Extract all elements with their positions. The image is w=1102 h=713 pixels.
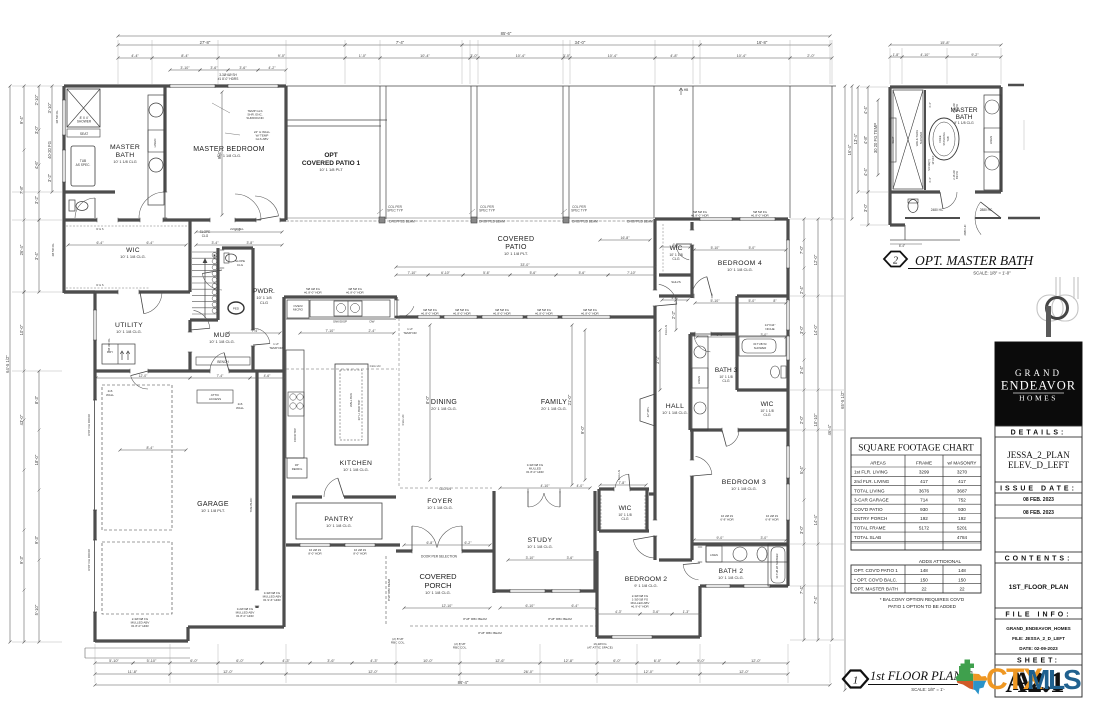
svg-text:SHOWER: SHOWER bbox=[754, 346, 767, 350]
svg-text:150: 150 bbox=[958, 577, 966, 582]
svg-text:9'-0": 9'-0" bbox=[278, 54, 286, 58]
svg-text:10' 1 1/8 CLG.: 10' 1 1/8 CLG. bbox=[427, 505, 453, 510]
svg-text:JESSA_2_PLAN: JESSA_2_PLAN bbox=[1007, 450, 1070, 460]
svg-text:* OPT. COV'D BALC.: * OPT. COV'D BALC. bbox=[854, 577, 897, 582]
svg-text:8'-3": 8'-3" bbox=[34, 395, 39, 404]
svg-text:OPT. MASTER BATH: OPT. MASTER BATH bbox=[915, 253, 1034, 268]
window master-top bbox=[170, 84, 215, 88]
svg-text:3'-0": 3'-0" bbox=[761, 536, 769, 540]
svg-text:3'-4": 3'-4" bbox=[212, 241, 220, 245]
svg-text:417: 417 bbox=[958, 479, 966, 484]
svg-text:7'-10": 7'-10" bbox=[627, 271, 636, 275]
svg-text:6'-10": 6'-10" bbox=[441, 271, 450, 275]
svg-text:PATIO: PATIO bbox=[505, 244, 527, 251]
window bed2-bottom bbox=[612, 635, 652, 639]
svg-text:3'-2": 3'-2" bbox=[34, 195, 39, 204]
svg-text:6'-0": 6'-0" bbox=[190, 659, 198, 663]
fixture fireplace bbox=[640, 394, 655, 426]
wall study-left bbox=[492, 491, 495, 593]
svg-text:PWDR.: PWDR. bbox=[253, 288, 275, 295]
svg-text:9'-0": 9'-0" bbox=[697, 659, 705, 663]
wire dim-wic4 bbox=[661, 246, 690, 248]
svg-text:14'-4": 14'-4" bbox=[813, 514, 818, 525]
svg-text:10'-4": 10'-4" bbox=[737, 54, 747, 58]
svg-text:#1 8'-0" HDR: #1 8'-0" HDR bbox=[535, 312, 553, 316]
svg-text:#1 8'-0" HDR: #1 8'-0" HDR bbox=[751, 214, 769, 218]
svg-text:43'-0": 43'-0" bbox=[19, 414, 24, 425]
fixture mud-bench bbox=[196, 357, 250, 365]
svg-text:2880 HC: 2880 HC bbox=[963, 224, 967, 235]
svg-text:9'-2": 9'-2" bbox=[971, 53, 979, 57]
svg-text:3676: 3676 bbox=[919, 488, 930, 493]
door utility-garage bbox=[131, 376, 148, 389]
wall kitchen-north bbox=[284, 295, 397, 298]
svg-text:PED: PED bbox=[233, 307, 240, 311]
svg-text:SQUARE FOOTAGE CHART: SQUARE FOOTAGE CHART bbox=[858, 444, 974, 454]
svg-text:27'-8": 27'-8" bbox=[200, 40, 211, 45]
wall exterior-master-top bbox=[64, 84, 286, 87]
svg-text:#1 9'-6" HDR: #1 9'-6" HDR bbox=[631, 605, 649, 609]
svg-text:7'-8": 7'-8" bbox=[19, 185, 24, 194]
door masterbath-entry bbox=[139, 192, 165, 218]
svg-text:752: 752 bbox=[958, 498, 966, 503]
fixture oven-micro bbox=[287, 300, 309, 318]
svg-text:148: 148 bbox=[920, 568, 928, 573]
svg-text:CLG: CLG bbox=[621, 517, 628, 521]
wire dropped-beam bbox=[286, 220, 655, 222]
door optbath-2 bbox=[975, 202, 981, 235]
svg-text:8"x8" RBC BEAM: 8"x8" RBC BEAM bbox=[478, 631, 502, 635]
svg-text:12'-8": 12'-8" bbox=[564, 659, 574, 663]
wire dim-top bbox=[118, 35, 830, 37]
fixture master-toilet bbox=[76, 202, 88, 211]
node titleblock-contents bbox=[995, 552, 1082, 563]
svg-text:DROPPED BEAM: DROPPED BEAM bbox=[389, 220, 415, 224]
svg-text:64'-5 1/2": 64'-5 1/2" bbox=[5, 355, 10, 373]
svg-text:OPT. COV'D PATIO 1: OPT. COV'D PATIO 1 bbox=[854, 568, 898, 573]
svg-text:5'-10": 5'-10" bbox=[34, 604, 39, 615]
door hall-family bbox=[659, 284, 677, 304]
svg-text:12'-0": 12'-0" bbox=[813, 254, 818, 265]
svg-text:2480 HC: 2480 HC bbox=[931, 208, 944, 212]
svg-text:12'-0": 12'-0" bbox=[644, 670, 654, 674]
wall pantry-top bbox=[292, 495, 396, 498]
svg-text:12'-6": 12'-6" bbox=[495, 659, 505, 663]
node optbath-title bbox=[884, 252, 907, 267]
svg-text:TEMP DR: TEMP DR bbox=[269, 346, 283, 350]
svg-text:4'-4": 4'-4" bbox=[235, 228, 243, 232]
svg-text:5'-10": 5'-10" bbox=[711, 246, 720, 250]
svg-text:3'-0": 3'-0" bbox=[799, 325, 804, 334]
svg-text:DOOR PER SELECTION: DOOR PER SELECTION bbox=[421, 555, 458, 559]
wall mud-east bbox=[251, 318, 254, 371]
svg-text:FILE INFO:: FILE INFO: bbox=[1005, 611, 1071, 618]
fixture bath3-vanity bbox=[692, 336, 708, 430]
fixture kitchen-counter-top bbox=[286, 318, 396, 320]
wire dim-bottom bbox=[95, 662, 133, 664]
wire dim-left bbox=[9, 86, 11, 642]
svg-text:26'-0": 26'-0" bbox=[524, 670, 534, 674]
svg-text:NICHE(T): NICHE(T) bbox=[927, 159, 931, 171]
svg-text:WIC: WIC bbox=[126, 247, 140, 254]
door pantry bbox=[322, 494, 344, 499]
window right-bed4 bbox=[786, 240, 790, 268]
svg-text:LINEN: LINEN bbox=[989, 136, 993, 144]
svg-text:FAMILY: FAMILY bbox=[541, 399, 567, 406]
window bath2-win bbox=[706, 584, 730, 588]
svg-text:4'-4": 4'-4" bbox=[863, 105, 868, 114]
wire dim-right-ticks bbox=[803, 218, 806, 221]
door bed4 bbox=[692, 277, 707, 296]
svg-text:3'-4": 3'-4" bbox=[928, 177, 932, 183]
svg-text:5172: 5172 bbox=[919, 526, 930, 531]
svg-text:DETAILS:: DETAILS: bbox=[1011, 429, 1067, 436]
svg-text:1'-3": 1'-3" bbox=[683, 610, 691, 614]
svg-text:7'-10": 7'-10" bbox=[408, 271, 417, 275]
svg-text:30 TUB W/ SHOWER: 30 TUB W/ SHOWER bbox=[775, 553, 779, 578]
svg-text:9'-0": 9'-0" bbox=[717, 333, 725, 337]
svg-text:TOTAL LIVING: TOTAL LIVING bbox=[854, 488, 885, 493]
svg-text:9'-0": 9'-0" bbox=[580, 425, 585, 434]
svg-text:LINEN: LINEN bbox=[710, 553, 718, 557]
svg-text:10'-4": 10'-4" bbox=[420, 54, 430, 58]
svg-text:SEAT: SEAT bbox=[80, 132, 88, 136]
svg-text:BENCH: BENCH bbox=[217, 360, 229, 364]
svg-text:9' 1 1/8 CLG.: 9' 1 1/8 CLG. bbox=[634, 583, 657, 588]
svg-text:COVERED: COVERED bbox=[498, 236, 535, 243]
svg-text:4'-4": 4'-4" bbox=[863, 167, 868, 176]
fixture garage-bays bbox=[102, 385, 172, 530]
svg-text:BATH: BATH bbox=[956, 114, 973, 121]
svg-text:4'-2": 4'-2" bbox=[268, 66, 276, 70]
svg-text:FOYER: FOYER bbox=[427, 498, 452, 505]
svg-text:SCALE: 1/8" = 1'-0": SCALE: 1/8" = 1'-0" bbox=[973, 271, 1011, 276]
svg-text:CLG: CLG bbox=[260, 300, 268, 305]
svg-text:#1 8'-0" HDR: #1 8'-0" HDR bbox=[453, 312, 471, 316]
svg-text:3'-10": 3'-10" bbox=[47, 102, 52, 113]
wall bed2-top-jog bbox=[649, 492, 655, 495]
window study-front bbox=[510, 589, 545, 593]
wall stairs-east bbox=[216, 248, 219, 320]
fixture shower-seat bbox=[67, 129, 100, 137]
svg-text:08 FEB. 2023: 08 FEB. 2023 bbox=[1023, 510, 1054, 516]
wire dim-patio bbox=[396, 266, 655, 268]
svg-text:BATH: BATH bbox=[116, 152, 135, 159]
svg-text:1: 1 bbox=[853, 675, 859, 687]
svg-text:3Ø 5Ø FG: 3Ø 5Ø FG bbox=[55, 111, 59, 124]
svg-text:10'-10": 10'-10" bbox=[813, 413, 818, 427]
fixture wic4-shelves bbox=[662, 224, 664, 273]
svg-text:COVERED PATIO 1: COVERED PATIO 1 bbox=[302, 160, 361, 167]
svg-text:5'-10": 5'-10" bbox=[109, 659, 119, 663]
svg-text:LINEN: LINEN bbox=[153, 139, 157, 148]
svg-text:1'-0": 1'-0" bbox=[359, 54, 367, 58]
fixture wic2-shelves bbox=[600, 495, 602, 529]
svg-text:150: 150 bbox=[920, 577, 928, 582]
svg-text:3'-4": 3'-4" bbox=[34, 251, 39, 260]
door garage-left-doors bbox=[92, 400, 97, 510]
svg-text:R & S: R & S bbox=[96, 283, 103, 287]
door wic-entry bbox=[255, 196, 279, 216]
svg-text:#1 8'-0" HDR: #1 8'-0" HDR bbox=[493, 312, 511, 316]
svg-text:10' 1 1/8 CLG.: 10' 1 1/8 CLG. bbox=[727, 267, 753, 272]
svg-text:6'-2": 6'-2" bbox=[465, 541, 473, 545]
svg-text:8'-4": 8'-4" bbox=[181, 54, 189, 58]
svg-text:#1 8'-0" HDR: #1 8'-0" HDR bbox=[346, 291, 364, 295]
svg-text:417: 417 bbox=[920, 479, 928, 484]
svg-text:6'-4": 6'-4" bbox=[899, 244, 905, 248]
node sqft-chart bbox=[851, 438, 981, 550]
svg-text:930: 930 bbox=[958, 507, 966, 512]
svg-text:TRE BUFF: TRE BUFF bbox=[249, 498, 253, 513]
svg-text:(AT ATTIC SPACE): (AT ATTIC SPACE) bbox=[587, 646, 612, 650]
svg-text:13'-4": 13'-4" bbox=[853, 133, 858, 144]
wall masterbath-east bbox=[163, 86, 166, 192]
svg-text:3'-6": 3'-6" bbox=[653, 610, 661, 614]
svg-text:PORCH: PORCH bbox=[424, 581, 451, 590]
wire dim-right bbox=[803, 219, 805, 640]
door kitchen-patio bbox=[397, 306, 414, 318]
svg-text:WIC: WIC bbox=[619, 505, 632, 512]
door wic3 bbox=[726, 430, 739, 446]
svg-text:SPEC TYP: SPEC TYP bbox=[387, 209, 403, 213]
svg-text:9' 1 1/8 CLG: 9' 1 1/8 CLG bbox=[954, 121, 974, 125]
wall pantry-box bbox=[296, 503, 382, 539]
fixture wic-master-rods bbox=[66, 225, 188, 227]
wall bath3-vanity-wall bbox=[688, 334, 691, 430]
svg-text:21'-0": 21'-0" bbox=[567, 394, 572, 405]
svg-text:HALL: HALL bbox=[666, 403, 685, 410]
svg-text:86'-4": 86'-4" bbox=[458, 680, 469, 685]
svg-text:192: 192 bbox=[958, 516, 966, 521]
wire dim-family-int bbox=[584, 330, 586, 480]
svg-text:10' 1 1/8 CLG.: 10' 1 1/8 CLG. bbox=[527, 544, 553, 549]
svg-text:SCALE: 1/8" = 1'-: SCALE: 1/8" = 1'- bbox=[911, 687, 945, 692]
svg-text:10' 1 1/8 CLG: 10' 1 1/8 CLG bbox=[113, 160, 136, 164]
svg-text:CLG: CLG bbox=[672, 257, 679, 261]
window right-bed3 bbox=[786, 446, 790, 478]
svg-text:7'-0": 7'-0" bbox=[799, 245, 804, 254]
svg-text:10' 1 1/8 CLG.: 10' 1 1/8 CLG. bbox=[425, 590, 451, 595]
svg-text:2'-2": 2'-2" bbox=[671, 310, 676, 319]
wall optbath-inner bbox=[924, 90, 926, 190]
svg-text:SEAT: SEAT bbox=[891, 136, 895, 143]
svg-text:DROPPED BEAM: DROPPED BEAM bbox=[479, 220, 505, 224]
node door-gaps bbox=[140, 218, 163, 222]
fixture pwdr-ped bbox=[228, 302, 244, 314]
svg-text:9'-3": 9'-3" bbox=[19, 555, 24, 564]
svg-text:AREAS: AREAS bbox=[870, 460, 886, 465]
svg-text:5'-0": 5'-0" bbox=[749, 299, 757, 303]
door master-entry bbox=[235, 194, 261, 220]
svg-text:10' 1 1/8 CLG.: 10' 1 1/8 CLG. bbox=[343, 467, 369, 472]
fixture utility-dryer bbox=[102, 344, 135, 364]
svg-text:08 FEB. 2023: 08 FEB. 2023 bbox=[1023, 497, 1054, 503]
svg-text:FRAME: FRAME bbox=[916, 460, 932, 465]
svg-text:148: 148 bbox=[958, 568, 966, 573]
svg-text:FILE: JESSA_2_D_LEFT: FILE: JESSA_2_D_LEFT bbox=[1012, 636, 1065, 641]
svg-text:6'-4": 6'-4" bbox=[147, 241, 155, 245]
svg-text:22: 22 bbox=[921, 587, 927, 592]
svg-text:30 20 FG TEMP: 30 20 FG TEMP bbox=[873, 123, 878, 153]
door wic2 bbox=[615, 474, 629, 488]
svg-text:18'-0": 18'-0" bbox=[34, 454, 39, 465]
wall study-bottom bbox=[494, 589, 597, 592]
svg-text:COVERED: COVERED bbox=[419, 572, 457, 581]
svg-text:TUB: TUB bbox=[946, 136, 950, 141]
svg-text:HB: HB bbox=[684, 88, 688, 92]
svg-text:CLG LN: CLG LN bbox=[401, 415, 405, 426]
svg-text:5'-4": 5'-4" bbox=[799, 465, 804, 474]
node floorplan-title bbox=[843, 671, 868, 688]
svg-text:5'-6": 5'-6" bbox=[530, 271, 538, 275]
svg-text:GARAGE: GARAGE bbox=[197, 501, 229, 508]
svg-text:5Ø 3Ø FG: 5Ø 3Ø FG bbox=[107, 339, 111, 352]
wall garage-bottom bbox=[95, 639, 188, 642]
svg-text:CLG: CLG bbox=[202, 234, 209, 238]
svg-text:33'-0": 33'-0" bbox=[520, 263, 530, 267]
svg-text:MASTER: MASTER bbox=[110, 144, 140, 151]
wall bed2-left bbox=[595, 551, 598, 637]
svg-text:6'-8" HDR: 6'-8" HDR bbox=[720, 518, 734, 522]
svg-text:3'-6": 3'-6" bbox=[567, 556, 575, 560]
wire dim-garage-top bbox=[96, 377, 190, 379]
svg-text:4'-8": 4'-8" bbox=[670, 54, 678, 58]
svg-text:R & S: R & S bbox=[96, 227, 103, 231]
svg-text:3'-0": 3'-0" bbox=[563, 54, 571, 58]
svg-text:#1 8'-0" HDR: #1 8'-0" HDR bbox=[581, 312, 599, 316]
svg-text:TOTAL SLAB: TOTAL SLAB bbox=[854, 535, 881, 540]
wire bbox=[286, 85, 836, 87]
node titleblock-issuedate bbox=[995, 482, 1082, 493]
svg-text:BR PD: BR PD bbox=[955, 171, 959, 179]
wall optbath-left bbox=[888, 87, 891, 192]
svg-text:4784: 4784 bbox=[957, 535, 968, 540]
svg-text:4'-4": 4'-4" bbox=[672, 296, 680, 300]
fixture optbath-vanity bbox=[984, 95, 1001, 190]
door mud-utility bbox=[194, 310, 210, 328]
door toilet-room bbox=[75, 198, 95, 218]
svg-text:3'-8": 3'-8" bbox=[247, 241, 255, 245]
svg-text:#1 8'-0" HDR: #1 8'-0" HDR bbox=[691, 214, 709, 218]
wall bed3-left bbox=[690, 430, 693, 560]
svg-text:2: 2 bbox=[893, 256, 898, 267]
svg-text:7'-4": 7'-4" bbox=[217, 374, 225, 378]
svg-text:UTILITY: UTILITY bbox=[115, 322, 143, 329]
fixture optbath-tub bbox=[929, 118, 959, 160]
svg-text:7'-4": 7'-4" bbox=[799, 585, 804, 594]
svg-text:KITCHEN: KITCHEN bbox=[340, 460, 373, 467]
wall utility-wic-divider bbox=[64, 290, 190, 293]
wall optbath-top bbox=[890, 85, 1001, 88]
wall optbath-bottom bbox=[890, 190, 940, 193]
wall bath3-bottom-hall bbox=[659, 558, 692, 561]
svg-text:DATE: 02-09-2023: DATE: 02-09-2023 bbox=[1019, 646, 1058, 651]
wall bed2-bottom bbox=[597, 635, 700, 638]
svg-text:2'-0": 2'-0" bbox=[799, 415, 804, 424]
door bed2 bbox=[633, 540, 655, 558]
svg-text:BATH 3: BATH 3 bbox=[715, 367, 738, 374]
svg-text:5'-6": 5'-6" bbox=[483, 271, 491, 275]
wall bath-wic-divider bbox=[64, 218, 286, 221]
wall wic4-bottom bbox=[659, 273, 692, 276]
svg-text:#1 8'-0" HDR: #1 8'-0" HDR bbox=[236, 614, 254, 618]
wall exterior-left-jog bbox=[64, 290, 95, 293]
svg-text:LINEN: LINEN bbox=[697, 376, 701, 384]
door study-double bbox=[528, 493, 544, 507]
svg-text:CLG: CLG bbox=[763, 413, 770, 417]
door optbath-1 bbox=[943, 192, 957, 209]
window pantry-front bbox=[300, 543, 330, 547]
svg-text:GLS ABV: GLS ABV bbox=[256, 137, 269, 141]
svg-text:10' 1 1/8 CLG.: 10' 1 1/8 CLG. bbox=[120, 254, 146, 259]
svg-text:MICRO: MICRO bbox=[293, 308, 304, 312]
wire dim-hall-int bbox=[675, 300, 677, 330]
svg-text:4'-8": 4'-8" bbox=[863, 135, 868, 144]
svg-text:3-CAR GARAGE: 3-CAR GARAGE bbox=[854, 498, 889, 503]
svg-text:26'-4": 26'-4" bbox=[19, 244, 24, 255]
door bath3 bbox=[694, 334, 710, 352]
svg-text:7'-4": 7'-4" bbox=[813, 595, 818, 604]
svg-text:11'-8": 11'-8" bbox=[128, 670, 138, 674]
svg-text:12'-0": 12'-0" bbox=[368, 670, 378, 674]
svg-text:3'-10": 3'-10" bbox=[180, 66, 190, 70]
wall kitchen-jog bbox=[394, 297, 397, 318]
svg-text:SNK/DISP: SNK/DISP bbox=[333, 320, 347, 324]
window utility-left bbox=[93, 310, 97, 340]
svg-text:15'-8": 15'-8" bbox=[940, 41, 950, 45]
svg-text:ADDS ATTIDIONAL: ADDS ATTIDIONAL bbox=[919, 559, 962, 565]
svg-text:MASTER BEDROOM: MASTER BEDROOM bbox=[193, 146, 264, 153]
wall foyer-front bbox=[396, 549, 494, 552]
svg-text:8"x8" RBC BEAM: 8"x8" RBC BEAM bbox=[463, 617, 487, 621]
svg-text:3299: 3299 bbox=[919, 470, 930, 475]
svg-text:TOTAL FRAME: TOTAL FRAME bbox=[854, 526, 886, 531]
wire garage-apron bbox=[85, 647, 190, 649]
svg-text:5'-0": 5'-0" bbox=[749, 246, 757, 250]
svg-text:46'-4": 46'-4" bbox=[827, 424, 832, 435]
svg-text:34'-0": 34'-0" bbox=[575, 40, 586, 45]
svg-text:TEMP DR: TEMP DR bbox=[403, 331, 417, 335]
node patio1-outline bbox=[286, 119, 387, 121]
svg-text:BATH 2: BATH 2 bbox=[719, 568, 744, 575]
svg-text:CLG LN: CLG LN bbox=[370, 364, 381, 368]
svg-text:WIC: WIC bbox=[761, 401, 774, 408]
svg-text:10' 1 1/8 CLG.: 10' 1 1/8 CLG. bbox=[209, 339, 235, 344]
svg-text:DROPPED BEAM: DROPPED BEAM bbox=[627, 220, 653, 224]
door mud-garage bbox=[210, 353, 224, 371]
fixture bath2-vanity bbox=[706, 546, 788, 562]
svg-text:5201: 5201 bbox=[957, 526, 968, 531]
svg-text:10' 1 1/8 PLT: 10' 1 1/8 PLT bbox=[319, 167, 343, 172]
svg-text:9'-4": 9'-4" bbox=[217, 150, 222, 159]
node titleblock-sheet bbox=[995, 654, 1082, 665]
svg-text:10'-4": 10'-4" bbox=[608, 54, 618, 58]
svg-text:22: 22 bbox=[959, 587, 965, 592]
svg-text:OPT: OPT bbox=[324, 152, 337, 159]
svg-text:3'-6": 3'-6" bbox=[239, 66, 247, 70]
svg-text:#1 9'-6" HDR: #1 9'-6" HDR bbox=[263, 598, 281, 602]
node titleblock-fileinfo bbox=[995, 608, 1082, 619]
svg-text:ELEV._D_LEFT: ELEV._D_LEFT bbox=[1008, 460, 1070, 470]
svg-text:12'-0": 12'-0" bbox=[139, 374, 148, 378]
svg-text:192: 192 bbox=[920, 516, 928, 521]
svg-text:WALL: WALL bbox=[106, 393, 114, 397]
fixture bath2-tub bbox=[768, 544, 788, 586]
wall bed2-right bbox=[698, 586, 701, 637]
window master-bath-left bbox=[62, 100, 66, 135]
wall utility-garage bbox=[95, 369, 284, 372]
